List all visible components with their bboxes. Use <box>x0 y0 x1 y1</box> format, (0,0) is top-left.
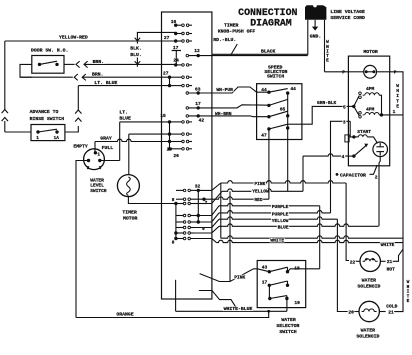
water selector switch box <box>257 261 306 308</box>
branch arrow to brown row <box>136 58 138 67</box>
wire riser to water selector 19 <box>286 299 288 312</box>
svg-text:H: H <box>396 88 399 94</box>
svg-text:CAPACITOR: CAPACITOR <box>340 172 366 178</box>
svg-text:SWITCH: SWITCH <box>279 329 296 335</box>
label PINK lower <box>233 275 245 279</box>
svg-text:RD.-BLU.: RD.-BLU. <box>213 37 236 43</box>
speed selector right dot 115 <box>286 114 289 117</box>
svg-text:BLU.: BLU. <box>130 52 142 58</box>
svg-text:RINSE SWITCH: RINSE SWITCH <box>30 116 65 122</box>
svg-text:E: E <box>326 58 329 64</box>
svg-text:19: 19 <box>294 300 300 306</box>
label WH-PUR <box>216 88 234 92</box>
cold water solenoid circle <box>359 301 379 321</box>
svg-text:YELLOW: YELLOW <box>272 218 289 224</box>
ground arrow <box>314 20 316 27</box>
svg-text:WH-PUR: WH-PUR <box>216 87 233 93</box>
wire motor 3 riser <box>331 121 349 213</box>
timer internal dot column link <box>175 204 177 239</box>
motor box <box>348 56 389 166</box>
timer motor coil symbol <box>127 177 131 195</box>
svg-text:32: 32 <box>195 183 201 189</box>
label 4 <box>341 154 345 158</box>
svg-text:20: 20 <box>348 310 354 316</box>
connector chevrons left vertical <box>2 110 8 114</box>
speed selector left dot 2 <box>267 104 270 107</box>
svg-text:COLD: COLD <box>386 304 397 310</box>
wire exit jog purple1 <box>198 206 219 216</box>
wire left frame vertical with connector <box>4 41 6 110</box>
svg-text:42: 42 <box>199 117 205 123</box>
svg-text:21: 21 <box>388 309 394 315</box>
wire 72 to white-blue row <box>199 291 239 312</box>
svg-text:WHITE: WHITE <box>270 238 284 244</box>
svg-text:E: E <box>407 298 410 304</box>
svg-text:LEVEL: LEVEL <box>90 183 104 189</box>
wire water selector 18 link <box>288 269 320 272</box>
label PINK <box>254 181 266 185</box>
timer mid row 227.5 <box>183 226 186 229</box>
motor main winding lower <box>359 112 362 115</box>
wire terminal 2 down to orange <box>76 161 89 318</box>
svg-text:27: 27 <box>163 70 169 76</box>
svg-text:44: 44 <box>290 86 296 92</box>
svg-text:CONNECTION: CONNECTION <box>238 7 297 18</box>
svg-text:4: 4 <box>342 154 345 160</box>
svg-text:3: 3 <box>99 166 102 171</box>
timer mid row 233 <box>174 231 177 234</box>
wire 70 riser white-blue <box>175 280 177 312</box>
door switch contacts <box>38 63 41 66</box>
svg-text:2: 2 <box>375 174 378 180</box>
svg-text:17: 17 <box>173 45 179 51</box>
svg-text:5: 5 <box>343 104 346 110</box>
svg-text:ORANGE: ORANGE <box>116 312 133 318</box>
motor protector circle P <box>364 65 377 78</box>
wire pink riser to hot solenoid 22 <box>346 183 356 261</box>
svg-text:E: E <box>396 104 399 110</box>
wire lt blue riser to timer 15 <box>119 122 121 161</box>
svg-text:RED: RED <box>254 197 263 203</box>
wire red row to speed selector 47 <box>212 197 269 199</box>
label PURPLE 2 <box>271 212 289 216</box>
wire rinse switch left <box>5 131 31 133</box>
svg-text:BLACK: BLACK <box>261 49 276 55</box>
svg-text:PINK: PINK <box>254 181 265 187</box>
pointer rd-blu to black wire <box>231 44 238 55</box>
wire exit jog blue <box>194 226 219 233</box>
svg-text:GND.: GND. <box>310 34 322 40</box>
timer internal link 15-148 <box>169 122 171 149</box>
svg-text:DOOR SW. N.O.: DOOR SW. N.O. <box>31 48 68 54</box>
svg-text:SWITCH: SWITCH <box>267 74 284 80</box>
svg-text:WATER: WATER <box>362 278 377 284</box>
timer terminal row 142 gray-full <box>168 140 171 143</box>
svg-text:TIMER: TIMER <box>224 23 239 29</box>
label 5 <box>343 105 347 109</box>
wire white row source vertical <box>220 183 222 238</box>
wire motor P right white line <box>390 72 403 312</box>
wire brown row 1 from door switch <box>64 63 75 65</box>
svg-text:18: 18 <box>294 265 300 271</box>
wire terminal 3 to lt-blue riser <box>100 160 120 162</box>
rinse switch contacts <box>36 130 39 133</box>
wire black conductor from plug <box>212 20 308 55</box>
label YELLOW <box>251 189 269 193</box>
svg-text:PURPLE: PURPLE <box>272 204 289 210</box>
motor main winding upper <box>359 92 362 95</box>
label WHITE-BLUE <box>223 306 253 311</box>
svg-text:EMPTY: EMPTY <box>73 143 88 149</box>
timer internal link 27-ltblue <box>169 77 171 85</box>
svg-text:2: 2 <box>87 166 90 171</box>
svg-text:ADVANCE TO: ADVANCE TO <box>30 109 59 115</box>
timer motor circle <box>117 175 139 197</box>
label WHITE bundle <box>270 238 285 242</box>
wire brown row 2 <box>20 76 73 78</box>
label GRN-BLK <box>316 100 337 104</box>
motor terminal 4 arm with arrow <box>348 155 354 157</box>
svg-text:LT.: LT. <box>119 109 128 115</box>
wire timer motor to timer terminal 8 <box>128 197 176 204</box>
svg-text:4PM: 4PM <box>366 106 375 112</box>
water selector arm 43-18 <box>269 267 287 272</box>
svg-text:WHITE: WHITE <box>381 242 395 248</box>
wire exit jog purple2 <box>198 213 219 222</box>
svg-text:15: 15 <box>160 113 166 119</box>
wire purple row 1 <box>219 203 320 205</box>
label 21 cold <box>387 310 394 314</box>
svg-text:BRN.: BRN. <box>92 72 104 78</box>
svg-text:BRN.: BRN. <box>93 59 105 65</box>
wire yellow2 riser to cold solenoid 20 <box>337 219 355 311</box>
speed selector arm 3 <box>269 111 288 117</box>
timer box <box>162 12 212 299</box>
label YELLOW 2 <box>271 218 289 222</box>
svg-text:HOT: HOT <box>387 266 396 272</box>
timer mid row 215.5 <box>183 214 186 217</box>
svg-text:GRAY: GRAY <box>100 135 112 141</box>
speed selector right dot 128 <box>286 126 289 129</box>
wire WH-BRN from 17 <box>212 105 269 108</box>
svg-text:PINK: PINK <box>234 274 245 280</box>
label YELLOW-RED <box>58 35 88 40</box>
wire white conductor from plug (neutral bus) <box>324 20 326 72</box>
svg-text:FULL: FULL <box>102 145 114 151</box>
label 3 <box>342 120 346 124</box>
water selector arm 17 <box>269 281 287 285</box>
timer terminal row 134 <box>168 132 171 135</box>
speed selector left dot 4 <box>267 127 270 130</box>
wire pink to water selector 43 <box>200 269 270 282</box>
branch wire BLK/BLU to timer 27 <box>137 32 175 43</box>
svg-text:GRN-BLK: GRN-BLK <box>317 100 337 106</box>
water level switch terminal 1 <box>94 151 97 154</box>
power plug (line cord plug, filled) <box>305 5 326 20</box>
svg-text:WHITE-BLUE: WHITE-BLUE <box>224 306 253 312</box>
label BLUE <box>277 225 289 229</box>
svg-text:YELLOW: YELLOW <box>252 189 269 195</box>
hot water solenoid circle <box>360 251 380 271</box>
svg-text:1A: 1A <box>54 136 60 141</box>
svg-text:SOLENOID: SOLENOID <box>356 334 379 340</box>
wire motor 2 from capacitor down to blue row <box>379 157 380 227</box>
timer terminal row 148.8 <box>168 147 171 150</box>
wire motor P to white cord <box>325 71 349 73</box>
wire yellow row <box>222 189 303 191</box>
label 22 <box>349 260 356 264</box>
speed selector arm 2 <box>269 99 288 105</box>
label 21 hot <box>386 260 393 264</box>
svg-text:WATER: WATER <box>281 317 296 323</box>
label LT. BLUE row3 <box>94 80 118 85</box>
svg-text:47: 47 <box>261 132 267 138</box>
wire speed selector to grn-blk <box>288 123 302 125</box>
svg-text:7: 7 <box>205 200 208 206</box>
label BRN. row2 <box>91 72 104 77</box>
svg-text:YELLOW-RED: YELLOW-RED <box>59 35 88 41</box>
timer terminal lt-blue row <box>168 84 171 87</box>
svg-text:12: 12 <box>194 48 200 54</box>
water selector lower contacts <box>268 297 271 300</box>
label 20 <box>348 310 355 314</box>
wire GRN-BLK to motor 5 <box>302 106 349 124</box>
label EMPTY <box>73 144 89 149</box>
label WH-BRN <box>214 111 232 115</box>
label ORANGE <box>116 312 135 317</box>
timer terminal yellow-red row <box>174 39 177 42</box>
svg-text:MOTOR: MOTOR <box>363 49 378 55</box>
svg-text:20: 20 <box>167 146 173 152</box>
timer internal column 32-7 <box>197 190 199 222</box>
water level switch terminal 3 <box>98 159 101 162</box>
svg-text:T: T <box>396 98 399 104</box>
wire motor 4 riser to yellow row <box>303 154 348 156</box>
timer mid row 238.5 <box>174 237 177 240</box>
svg-text:DIAGRAM: DIAGRAM <box>250 18 292 29</box>
motor winding right link <box>379 95 381 115</box>
water level switch terminal 2 <box>87 159 90 162</box>
motor start capacitor circle <box>373 142 388 157</box>
svg-text:27: 27 <box>164 35 170 41</box>
svg-text:I: I <box>396 93 399 99</box>
wire WH-PUR from 63 <box>212 87 269 93</box>
water selector link 17 to lower <box>268 285 270 298</box>
svg-text:SOLENOID: SOLENOID <box>357 284 380 290</box>
wire white-blue row <box>176 310 287 312</box>
wire yellow row 2 <box>219 217 337 219</box>
svg-text:SWITCH: SWITCH <box>90 188 107 194</box>
wire ORANGE bottom <box>76 317 269 319</box>
svg-text:44: 44 <box>261 87 267 93</box>
svg-text:1: 1 <box>97 153 100 158</box>
svg-text:MOTOR: MOTOR <box>123 215 138 221</box>
speed selector left dot 3 <box>267 115 270 118</box>
svg-text:4PM: 4PM <box>366 86 375 92</box>
wire blue row <box>219 224 379 226</box>
motor terminal 1 junction <box>380 113 383 116</box>
speed selector box <box>257 84 302 140</box>
wire exit jog pink <box>198 183 221 190</box>
svg-text:BLUE: BLUE <box>278 224 289 230</box>
wire lt blue into timer 15 <box>120 121 170 123</box>
wire gray-full row from terminal 1 to timer <box>94 142 96 153</box>
label RED <box>254 197 264 201</box>
svg-text:P: P <box>394 70 397 76</box>
advance-to-rinse switch box <box>31 125 65 141</box>
svg-text:1: 1 <box>36 136 39 141</box>
svg-text:SERVICE CORD: SERVICE CORD <box>330 15 365 21</box>
door switch box <box>32 56 64 74</box>
svg-text:WATER: WATER <box>361 328 376 334</box>
wire exit jog yellow <box>206 191 222 203</box>
wire white row A <box>221 236 403 238</box>
label WHITE right <box>380 242 395 246</box>
svg-text:PURPLE: PURPLE <box>272 211 289 217</box>
start terminal bracket <box>345 135 349 142</box>
water level switch circle <box>84 149 105 170</box>
speed selector arm 4 <box>269 124 288 129</box>
svg-text:24: 24 <box>173 58 179 64</box>
timer terminal 7 row red <box>202 198 205 201</box>
svg-text:26: 26 <box>173 153 179 159</box>
svg-text:P: P <box>342 70 345 76</box>
wire purple1 riser to water selector 18 <box>319 206 321 269</box>
wire 42 to selector <box>212 115 269 118</box>
svg-text:BLK.: BLK. <box>130 46 142 52</box>
wire yellow to pink-43 vertical <box>229 191 231 281</box>
wire white row B from timer <box>212 239 217 243</box>
speed selector right column link <box>287 93 289 128</box>
wire purple row 2 <box>219 211 331 213</box>
wire 12 black row <box>212 55 308 57</box>
svg-text:KNOB-PUSH OFF: KNOB-PUSH OFF <box>218 28 256 34</box>
svg-text:8: 8 <box>172 198 175 203</box>
svg-text:LT. BLUE: LT. BLUE <box>94 80 117 86</box>
wire door switch left loop <box>20 64 32 77</box>
svg-text:22: 22 <box>350 259 356 265</box>
svg-text:TIMER: TIMER <box>122 209 137 215</box>
svg-text:8: 8 <box>172 241 175 246</box>
svg-text:3: 3 <box>343 119 346 125</box>
label BRN. row1 <box>92 59 105 64</box>
svg-text:65: 65 <box>280 106 286 112</box>
svg-text:START: START <box>357 129 371 135</box>
label PURPLE 1 <box>271 205 289 209</box>
wire rinse switch right riser with connector <box>65 126 78 132</box>
motor terminal 5 and selector arm <box>352 105 355 108</box>
svg-text:WATER: WATER <box>90 177 104 183</box>
wire orange riser junction <box>267 310 270 313</box>
motor start winding <box>350 121 354 137</box>
wire YELLOW-RED <box>5 40 176 42</box>
svg-text:17: 17 <box>262 280 268 286</box>
wire timer motor riser row to timer <box>128 134 130 175</box>
label 2 <box>374 175 378 179</box>
timer mid row 222 <box>183 221 186 224</box>
svg-text:BLUE: BLUE <box>119 115 131 121</box>
svg-text:9: 9 <box>202 226 205 232</box>
wire exit jog yellow2 <box>194 219 219 227</box>
wire pink row <box>221 181 346 183</box>
wire speed selector riser to yellow row <box>287 128 289 191</box>
label CAPACITOR with pointer <box>336 173 339 176</box>
speed selector arm 44 <box>269 89 288 93</box>
svg-text:LINE VOLTAGE: LINE VOLTAGE <box>330 9 365 15</box>
svg-text:W: W <box>396 83 399 89</box>
svg-text:1: 1 <box>393 109 396 115</box>
svg-text:21: 21 <box>387 259 393 265</box>
wire branch diag to hot 21 <box>393 249 403 261</box>
svg-text:SELECTOR: SELECTOR <box>276 323 299 329</box>
wire light blue row 3 <box>78 85 169 87</box>
